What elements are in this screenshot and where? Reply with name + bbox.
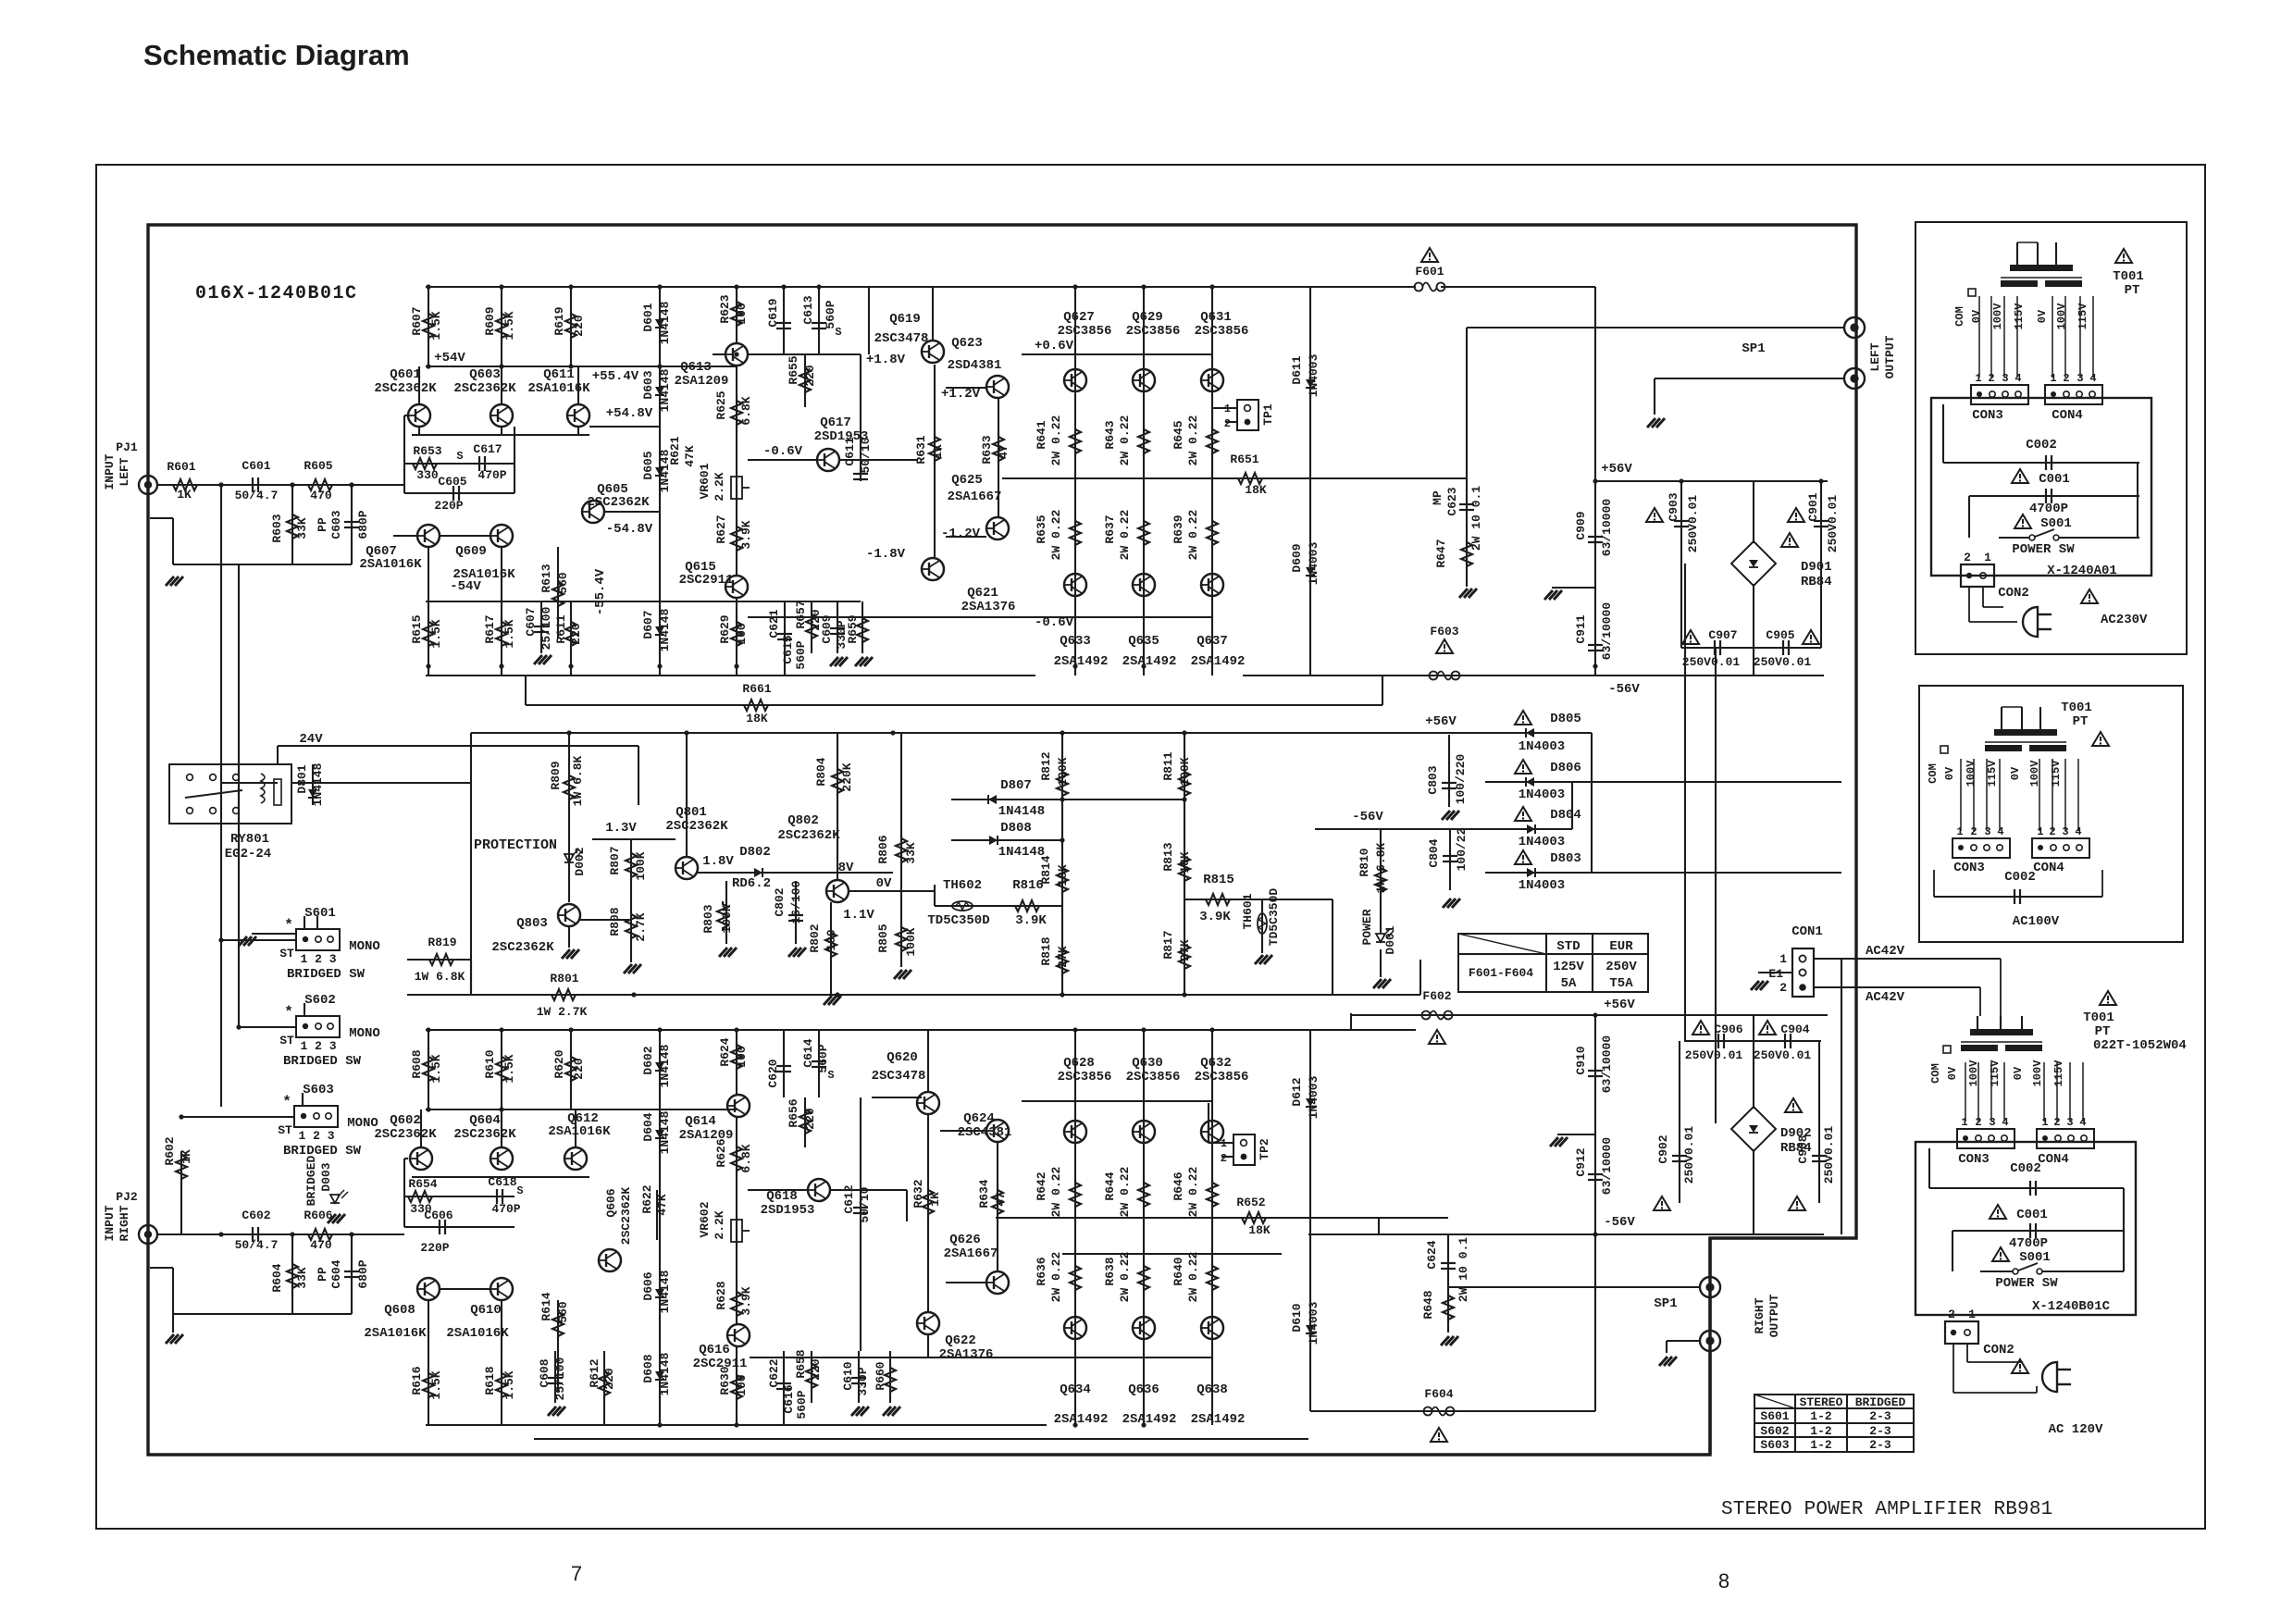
wire plug feed a xyxy=(1968,587,1970,622)
wire -56V rail xyxy=(1243,675,1824,676)
diode D610 xyxy=(1306,1325,1315,1333)
warning AC230V xyxy=(2081,589,2098,603)
diode D606 xyxy=(655,1289,664,1297)
svg-text:VR602: VR602 xyxy=(698,1201,712,1237)
wire Q618 base xyxy=(748,1189,808,1191)
resistor R818 xyxy=(1057,947,1068,976)
wire R805 col xyxy=(900,891,902,967)
svg-text:C901: C901 xyxy=(1806,492,1820,521)
wire C603 column xyxy=(351,485,353,564)
svg-text:R802: R802 xyxy=(808,924,822,952)
wire R810 col xyxy=(1380,828,1382,933)
resistor R804 xyxy=(832,766,843,796)
svg-text:1N4003: 1N4003 xyxy=(1519,739,1565,754)
svg-text:220P: 220P xyxy=(434,499,463,513)
wire q610 em xyxy=(501,1300,502,1351)
capacitor C621 xyxy=(777,633,792,635)
svg-text:C618: C618 xyxy=(488,1175,516,1189)
diode D804 xyxy=(1527,824,1535,834)
svg-text:Q618: Q618 xyxy=(766,1189,798,1204)
wire right gnd bus xyxy=(173,1313,352,1315)
svg-text:2SC2362K: 2SC2362K xyxy=(453,381,516,396)
svg-text:C609: C609 xyxy=(820,614,834,643)
svg-text:S601: S601 xyxy=(1760,1409,1789,1423)
wire tp1 drop xyxy=(1211,408,1213,478)
svg-text:R605: R605 xyxy=(304,459,332,473)
capacitor C001 c xyxy=(2029,1223,2031,1238)
capacitor C601 xyxy=(252,477,254,492)
transistor Q609 xyxy=(490,525,513,547)
svg-text:LEFT: LEFT xyxy=(1868,342,1882,371)
svg-text:PP: PP xyxy=(316,517,329,532)
svg-text:ST: ST xyxy=(279,1034,294,1048)
inner schematic frame xyxy=(148,225,1856,1455)
wire D808 row xyxy=(951,839,1062,841)
resistor R617 xyxy=(496,619,507,649)
capacitor C623 xyxy=(1459,503,1474,505)
ground D003 xyxy=(328,1214,336,1223)
svg-text:R627: R627 xyxy=(714,514,728,543)
svg-text:022T-1052W04: 022T-1052W04 xyxy=(2093,1038,2187,1053)
svg-text:POWER SW: POWER SW xyxy=(2012,542,2075,557)
fuse F602 xyxy=(1422,1011,1431,1020)
wire base row q1 xyxy=(404,415,408,416)
wire sw2 stub a xyxy=(304,1003,305,1016)
svg-text:R613: R613 xyxy=(539,564,553,592)
wire R612 column xyxy=(603,1351,605,1425)
svg-text:C612: C612 xyxy=(842,1184,856,1213)
svg-text:1.1V: 1.1V xyxy=(843,908,874,923)
wire input left xyxy=(157,484,404,486)
wire R660 column xyxy=(889,1351,891,1403)
wire prot right drop xyxy=(1419,960,1421,995)
switch S602 xyxy=(296,1016,340,1037)
warning C908 xyxy=(1789,1196,1805,1210)
wire C606 row xyxy=(404,1226,514,1228)
svg-text:R801: R801 xyxy=(550,972,578,986)
svg-text:C619: C619 xyxy=(766,298,780,327)
svg-text:1.5K: 1.5K xyxy=(429,619,443,648)
svg-text:2SA1016K: 2SA1016K xyxy=(364,1326,427,1341)
svg-text:1: 1 xyxy=(1975,372,1981,385)
capacitor C608 xyxy=(548,1377,563,1379)
switch table xyxy=(1754,1395,1914,1452)
ground R802 xyxy=(824,996,832,1005)
svg-text:F601: F601 xyxy=(1415,265,1444,279)
svg-text:R652: R652 xyxy=(1236,1196,1265,1209)
svg-text:SP1: SP1 xyxy=(1742,341,1765,356)
wire gnd drop r xyxy=(172,1314,174,1333)
wire col B xyxy=(238,564,240,1027)
wire R656 col xyxy=(804,1097,806,1147)
wire C620 column xyxy=(783,1030,785,1097)
transformer T001 a xyxy=(2010,265,2073,271)
wire R615 column xyxy=(428,601,429,676)
node right junction xyxy=(218,1232,223,1236)
svg-text:R648: R648 xyxy=(1421,1290,1435,1319)
transistor Q613 xyxy=(725,343,748,366)
svg-text:X-1240A01: X-1240A01 xyxy=(2047,564,2117,578)
svg-text:TH601: TH601 xyxy=(1241,893,1255,929)
svg-text:Q616: Q616 xyxy=(699,1343,730,1357)
svg-text:S602: S602 xyxy=(1760,1424,1789,1438)
svg-text:1.5K: 1.5K xyxy=(502,619,516,648)
svg-text:250V0.01: 250V0.01 xyxy=(1685,1048,1743,1062)
svg-text:18K: 18K xyxy=(1178,851,1192,874)
resistor R638 xyxy=(1138,1263,1149,1293)
svg-text:R621: R621 xyxy=(668,436,682,465)
svg-text:C906: C906 xyxy=(1714,1023,1742,1036)
svg-text:X-1240B01C: X-1240B01C xyxy=(2032,1299,2111,1314)
svg-text:C601: C601 xyxy=(242,459,270,473)
resistor R653 xyxy=(410,458,440,469)
svg-text:560P: 560P xyxy=(795,1390,809,1419)
testpoint TP2 xyxy=(1233,1134,1255,1165)
wire heavy speaker link xyxy=(1708,1238,1711,1278)
wire sw3 stub a xyxy=(302,1093,304,1106)
svg-text:INPUT: INPUT xyxy=(103,1205,117,1241)
svg-text:D606: D606 xyxy=(641,1271,655,1300)
svg-text:R623: R623 xyxy=(718,294,732,323)
svg-text:CON2: CON2 xyxy=(1983,1343,2014,1357)
svg-text:27K: 27K xyxy=(1178,939,1192,961)
svg-text:Q637: Q637 xyxy=(1196,634,1228,649)
ground TH601 xyxy=(1255,955,1263,964)
resistor R616 xyxy=(423,1370,434,1400)
warning C001 a xyxy=(2012,469,2028,483)
wire C002 drops b xyxy=(1933,870,1935,897)
resistor R618 xyxy=(496,1370,507,1400)
wire q622-q626 xyxy=(946,1282,986,1283)
power unit inner box a xyxy=(1931,398,2151,576)
svg-text:+1.8V: +1.8V xyxy=(866,353,906,367)
svg-text:100V: 100V xyxy=(1965,760,1977,787)
svg-text:Q610: Q610 xyxy=(470,1303,502,1318)
svg-text:250V0.01: 250V0.01 xyxy=(1754,655,1812,669)
wire C624 col xyxy=(1447,1234,1449,1333)
svg-text:1N4003: 1N4003 xyxy=(1307,353,1320,397)
power unit inner box c xyxy=(1915,1142,2136,1315)
resistor R658 xyxy=(806,1361,817,1391)
svg-text:1: 1 xyxy=(1984,551,1991,564)
svg-text:BRIDGED SW: BRIDGED SW xyxy=(287,967,366,982)
resistor R809 xyxy=(564,773,575,802)
wire TH601 col xyxy=(1261,899,1263,953)
fuse table lines xyxy=(1545,934,1547,992)
capacitor C804 xyxy=(1443,855,1457,857)
svg-text:Q611: Q611 xyxy=(543,367,575,382)
wire drv bottom rail b xyxy=(750,1357,1022,1358)
wire q620-q624 xyxy=(940,1130,986,1132)
ground R805 xyxy=(894,970,902,979)
wire q608 q610 bases xyxy=(440,1288,490,1290)
svg-text:ST: ST xyxy=(278,1123,292,1137)
wire R652 row xyxy=(1041,1217,1379,1219)
wire bottom bus xyxy=(426,675,1035,676)
wire bias row xyxy=(748,353,861,355)
svg-text:S601: S601 xyxy=(304,906,336,921)
svg-text:R659: R659 xyxy=(846,614,860,643)
diode D807 xyxy=(988,795,997,804)
capacitor C904 xyxy=(1784,1034,1786,1048)
svg-text:1.8V: 1.8V xyxy=(702,854,734,869)
svg-text:2W 0.22: 2W 0.22 xyxy=(1118,415,1132,465)
diode D607 xyxy=(655,626,664,635)
wire C611 col xyxy=(860,354,862,481)
svg-text:Q609: Q609 xyxy=(455,544,487,559)
svg-text:R603: R603 xyxy=(270,514,284,542)
resistor R637 xyxy=(1138,518,1149,548)
wire q607 col xyxy=(428,547,429,601)
svg-text:F602: F602 xyxy=(1422,989,1451,1003)
wire q618 drop xyxy=(906,1190,908,1221)
wire bias col xyxy=(804,354,806,407)
svg-text:D804: D804 xyxy=(1550,808,1581,823)
transistor Q633 xyxy=(1064,574,1086,596)
svg-text:R642: R642 xyxy=(1035,1172,1048,1200)
svg-text:1: 1 xyxy=(1779,952,1787,966)
wire C908 col xyxy=(1818,1041,1820,1203)
svg-text:S001: S001 xyxy=(2040,516,2072,531)
transistor Q801 xyxy=(676,857,698,879)
wire prot to relay xyxy=(291,782,471,784)
wire r648 to jack xyxy=(1448,1286,1481,1288)
svg-text:CON2: CON2 xyxy=(1998,586,2029,601)
svg-text:C910: C910 xyxy=(1574,1046,1588,1074)
svg-text:27K: 27K xyxy=(1056,946,1070,968)
svg-text:S603: S603 xyxy=(1760,1438,1789,1452)
svg-text:220: 220 xyxy=(572,1058,586,1080)
wire secondary drops a xyxy=(1978,296,1980,378)
wire drive row b xyxy=(872,1097,922,1098)
wire R806 col xyxy=(900,733,902,891)
resistor R802 xyxy=(825,930,837,960)
warning F604 xyxy=(1431,1428,1447,1442)
warning F601 xyxy=(1421,248,1438,262)
wire F604 row xyxy=(1310,1410,1595,1412)
wire drv bottom rail xyxy=(748,616,1022,618)
wire Q611 out xyxy=(589,426,660,428)
ground C804 xyxy=(1443,899,1451,908)
svg-text:2SA1016K: 2SA1016K xyxy=(548,1124,611,1139)
svg-text:D808: D808 xyxy=(1000,821,1032,836)
svg-text:63/10000: 63/10000 xyxy=(1600,1035,1614,1094)
svg-text:R813: R813 xyxy=(1161,842,1175,871)
resistor R644 xyxy=(1138,1180,1149,1209)
svg-text:+54.8V: +54.8V xyxy=(606,406,653,421)
svg-text:2SA1667: 2SA1667 xyxy=(948,490,1002,504)
wire C610 column xyxy=(858,1351,860,1403)
bridge rectifier D902 xyxy=(1731,1107,1776,1151)
svg-text:1: 1 xyxy=(2037,825,2043,838)
wire D609 col xyxy=(1309,478,1311,676)
wire +56V rail b xyxy=(1595,1014,1828,1016)
wire gnd stub r xyxy=(172,1268,174,1314)
svg-text:33K: 33K xyxy=(904,842,918,864)
transistor Q605 xyxy=(582,501,604,523)
capacitor C907 xyxy=(1714,640,1716,655)
svg-text:T001: T001 xyxy=(2083,1010,2114,1025)
svg-text:D607: D607 xyxy=(641,610,655,638)
svg-text:100: 100 xyxy=(735,303,749,325)
wire D801 col xyxy=(312,764,314,805)
svg-text:R653: R653 xyxy=(413,444,441,458)
ground speaker b xyxy=(1659,1357,1667,1366)
wire gnd tap xyxy=(1552,587,1595,589)
capacitor C613 xyxy=(812,322,826,324)
wire output mid rail b xyxy=(1041,1217,1448,1219)
transistor Q625 xyxy=(986,517,1009,539)
svg-text:2W 0.22: 2W 0.22 xyxy=(1186,415,1200,465)
svg-text:VR601: VR601 xyxy=(698,463,712,499)
wire R607 column xyxy=(428,287,429,366)
svg-text:18K: 18K xyxy=(746,712,768,725)
svg-text:115V: 115V xyxy=(2076,303,2089,330)
svg-text:Q625: Q625 xyxy=(951,473,983,488)
wire C002 row a xyxy=(1943,462,2139,464)
svg-text:F603: F603 xyxy=(1430,625,1458,638)
svg-text:R812: R812 xyxy=(1039,751,1053,780)
svg-text:47: 47 xyxy=(997,444,1010,459)
transistor Q623 xyxy=(986,376,1009,398)
svg-text:18K: 18K xyxy=(1245,483,1267,497)
svg-text:2SC2362K: 2SC2362K xyxy=(777,828,840,843)
svg-text:C614: C614 xyxy=(801,1038,815,1067)
svg-text:1N4148: 1N4148 xyxy=(658,1110,672,1154)
svg-text:1: 1 xyxy=(2050,372,2056,385)
svg-text:4: 4 xyxy=(2079,1116,2086,1129)
wire CON1 p1 xyxy=(1814,958,2001,960)
wire base col xyxy=(403,415,405,493)
svg-text:C904: C904 xyxy=(1780,1023,1809,1036)
svg-text:63/10000: 63/10000 xyxy=(1600,602,1614,661)
svg-text:Q624: Q624 xyxy=(963,1111,995,1126)
svg-text:0V: 0V xyxy=(1970,309,1983,323)
svg-text:24V: 24V xyxy=(299,732,323,747)
wire C612 col xyxy=(860,1097,862,1221)
transistor Q603 xyxy=(490,404,513,427)
wire Q612 col xyxy=(575,1110,576,1147)
wire C622 column xyxy=(783,1351,785,1425)
wire C803 col xyxy=(1448,735,1450,807)
wire R652 jog xyxy=(1378,1218,1380,1234)
resistor R815 xyxy=(1203,894,1233,905)
resistor R652 xyxy=(1239,1212,1269,1223)
svg-text:R619: R619 xyxy=(552,306,566,335)
svg-text:R604: R604 xyxy=(270,1263,284,1292)
transistor Q629 xyxy=(1133,369,1155,391)
ground S601 xyxy=(239,936,247,946)
wire C804 col xyxy=(1449,829,1451,890)
wire F601 right xyxy=(1441,286,1595,288)
wire Q611 em xyxy=(577,427,579,435)
svg-text:OUTPUT: OUTPUT xyxy=(1883,335,1897,378)
svg-text:115V: 115V xyxy=(1986,760,1999,787)
svg-text:OUTPUT: OUTPUT xyxy=(1767,1294,1781,1337)
svg-text:R608: R608 xyxy=(410,1049,424,1078)
wire TH602 row xyxy=(935,905,1062,907)
svg-text:3.9K: 3.9K xyxy=(1015,913,1047,928)
resistor R811 xyxy=(1179,769,1190,799)
capacitor C910 xyxy=(1588,1070,1603,1072)
svg-text:2W 0.22: 2W 0.22 xyxy=(1049,509,1063,560)
svg-text:D901: D901 xyxy=(1801,560,1832,575)
wire con1 p2 down xyxy=(1841,959,1842,1234)
wire D610 col xyxy=(1309,1237,1311,1411)
svg-text:+1.2V: +1.2V xyxy=(941,387,981,402)
wire D806 right v xyxy=(1571,782,1573,829)
svg-text:Q623: Q623 xyxy=(951,336,983,351)
svg-text:Q632: Q632 xyxy=(1200,1056,1232,1071)
transistor Q606 xyxy=(599,1249,621,1271)
switch S001 c xyxy=(2013,1269,2018,1274)
warning AC120V xyxy=(2012,1359,2028,1373)
svg-text:POWER: POWER xyxy=(1360,909,1374,945)
svg-text:Q619: Q619 xyxy=(889,312,921,327)
svg-text:1 2 3: 1 2 3 xyxy=(300,952,336,966)
resistor R646 xyxy=(1207,1180,1218,1209)
resistor R806 xyxy=(896,836,907,865)
connector CON4 c xyxy=(2037,1129,2094,1148)
svg-text:MONO: MONO xyxy=(349,939,380,954)
svg-text:3: 3 xyxy=(2066,1116,2073,1129)
svg-text:2.2K: 2.2K xyxy=(713,472,726,501)
warning C903 xyxy=(1646,508,1663,522)
svg-text:100V: 100V xyxy=(2055,303,2068,330)
wire R659 column xyxy=(862,601,863,653)
svg-text:R645: R645 xyxy=(1171,420,1185,449)
resistor R655 xyxy=(800,366,811,395)
capacitor C619 xyxy=(776,322,791,324)
resistor R631 xyxy=(929,434,940,464)
svg-text:R655: R655 xyxy=(787,355,800,384)
svg-text:R609: R609 xyxy=(483,306,497,335)
wire R661 row xyxy=(526,704,1382,706)
wire Q603 em xyxy=(501,427,502,435)
ground R659 xyxy=(855,657,863,666)
resistor R810 xyxy=(1375,865,1386,895)
svg-text:D803: D803 xyxy=(1550,851,1581,866)
svg-text:2SC3856: 2SC3856 xyxy=(1058,1070,1112,1085)
svg-text:C802: C802 xyxy=(773,887,787,916)
wire Q601 em xyxy=(418,427,420,435)
wire Q613 base xyxy=(713,353,725,355)
switch S601 xyxy=(296,929,340,950)
svg-text:250V0.01: 250V0.01 xyxy=(1682,655,1741,669)
svg-text:S: S xyxy=(456,450,463,463)
wire C001 row c xyxy=(1952,1230,2124,1232)
diode D806 xyxy=(1526,777,1534,787)
warning C001 c xyxy=(1990,1205,2006,1219)
svg-text:R647: R647 xyxy=(1434,539,1448,567)
wire CON1 p2 xyxy=(1814,986,1980,988)
svg-text:R640: R640 xyxy=(1171,1257,1185,1285)
wire F602 row xyxy=(1351,1014,1595,1016)
pot VR601 xyxy=(731,477,742,499)
svg-text:16/100: 16/100 xyxy=(789,880,803,924)
svg-text:100K: 100K xyxy=(634,851,648,880)
svg-text:R808: R808 xyxy=(608,907,622,936)
svg-text:SP1: SP1 xyxy=(1654,1296,1677,1311)
svg-text:STEREO: STEREO xyxy=(1800,1395,1843,1409)
svg-text:RD6.2: RD6.2 xyxy=(732,876,771,891)
wire S001 row a2 xyxy=(2059,537,2139,539)
wire tp2 drop xyxy=(1208,1103,1209,1143)
svg-text:Q627: Q627 xyxy=(1063,310,1095,325)
wire relay left col xyxy=(238,783,240,824)
capacitor C002 c xyxy=(2029,1181,2031,1196)
svg-text:CON4: CON4 xyxy=(2038,1152,2069,1167)
